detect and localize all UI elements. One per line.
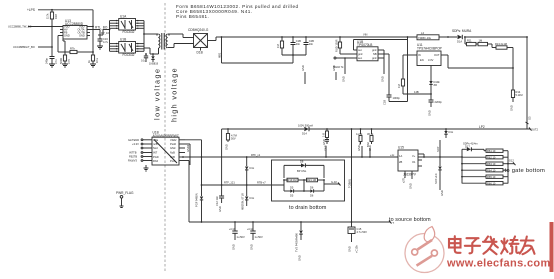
svg-text:C7x: C7x: [54, 59, 58, 64]
svg-text:gnd: gnd: [372, 48, 377, 52]
svg-text:VIN: VIN: [363, 33, 367, 37]
resistor R62 10: [462, 155, 508, 159]
svg-text:D1A: D1A: [457, 40, 462, 44]
svg-text:10n: 10n: [296, 42, 301, 46]
svg-text:1u 50V: 1u 50V: [255, 235, 263, 239]
wire right bus of FET packages to transformer: [143, 21, 158, 54]
isolator left pin stubs and nets: [128, 138, 152, 163]
svg-text:UCC28880_TW_BO: UCC28880_TW_BO: [8, 24, 32, 28]
svg-text:100V 500mA: 100V 500mA: [298, 124, 313, 128]
svg-text:low voltage: low voltage: [153, 68, 162, 120]
resistor R22 chain: [322, 128, 329, 151]
bridge rectifier D1B CDBHQ240-G: [188, 28, 216, 54]
svg-text:U1B: U1B: [120, 38, 126, 42]
svg-text:ZR: ZR: [434, 83, 438, 87]
IC U11 TPS7A4C0BPOP: [413, 43, 445, 66]
svg-text:240p: 240p: [45, 58, 49, 64]
svg-text:sen: sen: [358, 57, 363, 60]
transformer note text block: [176, 4, 299, 19]
svg-text:D5: D5: [290, 185, 294, 189]
IC U1B ADUM420BBRWZ isolator: [152, 131, 179, 165]
resistor R20A 4.22k: [356, 128, 363, 151]
wire RTF long net: [185, 153, 398, 157]
wire bridge output to HV rail: [216, 36, 222, 40]
resistor R1M vertical: [397, 79, 431, 94]
svg-text:PWR_FLAG: PWR_FLAG: [116, 191, 134, 195]
svg-text:1N5819: 1N5819: [149, 62, 159, 66]
svg-text:R62 10: R62 10: [487, 155, 496, 159]
svg-text:D1x: D1x: [250, 196, 255, 200]
svg-text:D8: D8: [300, 160, 304, 164]
svg-text:x2TL: x2TL: [401, 177, 405, 183]
svg-text:BP UNL: BP UNL: [297, 169, 307, 173]
IC U13 UCC28880D: [60, 19, 90, 39]
svg-text:NB: NB: [373, 52, 377, 56]
svg-text:+C13h: +C13h: [355, 245, 359, 253]
wire left bus of FET packages: [98, 21, 110, 52]
svg-text:R21 1M: R21 1M: [307, 178, 316, 182]
svg-text:FDC632: FDC632: [123, 53, 135, 57]
resistor R18 117k: [46, 10, 59, 27]
svg-text:R13 2L1M: R13 2L1M: [495, 42, 507, 46]
svg-text:RTF_x1: RTF_x1: [251, 153, 261, 157]
svg-text:MBZ09L-5TLR: MBZ09L-5TLR: [241, 193, 245, 210]
svg-text:GND: GND: [231, 244, 235, 250]
svg-text:GND: GND: [409, 183, 413, 189]
svg-text:GND: GND: [357, 145, 361, 151]
label to source bottom: [389, 217, 431, 223]
wire LP2 to TGB vertical: [348, 128, 353, 222]
resistor R63 10: [461, 162, 508, 166]
wire transformer secondary to bridge: [168, 34, 194, 48]
svg-text:D1x: D1x: [250, 166, 255, 170]
net G12 to gate bottom: [505, 159, 546, 174]
svg-text:V+: V+: [412, 154, 416, 158]
wire U11 input from rail: [403, 55, 413, 79]
svg-text:GND2: GND2: [186, 144, 190, 152]
capacitor C1B 10n 1kV: [291, 36, 302, 56]
svg-text:500R: 500R: [59, 58, 63, 64]
svg-text:CDBHQ240-G: CDBHQ240-G: [188, 28, 209, 32]
svg-text:GND: GND: [509, 105, 513, 111]
svg-text:GNd: GNd: [170, 146, 176, 150]
watermark url: [446, 258, 551, 270]
watermark logo circle: [405, 227, 444, 273]
resistor R66 10: [462, 181, 508, 185]
capacitor C14 1u 50V: [247, 221, 263, 250]
svg-text:RXd: RXd: [153, 159, 159, 163]
svg-text:14B: 14B: [414, 90, 419, 94]
resistor R7a 1k: [87, 55, 99, 64]
ground below C7x: [49, 64, 55, 67]
svg-text:out: out: [358, 48, 362, 52]
net stubs above wire x305 x336 x350 x382: [301, 65, 336, 84]
wire U13 pin1 to +LPS rail: [90, 10, 94, 55]
wire branch x201: [185, 140, 202, 196]
svg-text:D6: D6: [310, 185, 314, 189]
net +LPS: [27, 8, 93, 12]
svg-text:GND: GND: [79, 34, 85, 38]
capacitor C4 on LP2: [224, 128, 236, 150]
resistor R12: [476, 39, 492, 46]
svg-text:G-02: G-02: [331, 180, 337, 184]
transistor pair U1A FDC632: [110, 15, 145, 34]
capacitor C1B 1000p: [382, 36, 408, 105]
svg-text:2200p: 2200p: [435, 100, 443, 104]
svg-text:1M: 1M: [276, 44, 280, 48]
svg-text:GND: GND: [380, 76, 384, 82]
resistor R64 10: [461, 168, 508, 172]
svg-text:U1A: U1A: [120, 15, 127, 19]
resistor R11: [465, 37, 476, 46]
transistor pair U1B FDC632: [110, 38, 145, 57]
svg-text:GND: GND: [332, 65, 336, 71]
svg-text:DP_10: DP_10: [101, 31, 109, 35]
net stubs above RTF wire: [322, 139, 371, 158]
svg-text:NcB: NcB: [170, 151, 175, 155]
svg-text:1A: 1A: [399, 154, 402, 158]
svg-text:VDd2: VDd2: [170, 138, 177, 142]
svg-text:Pxd: Pxd: [170, 159, 175, 163]
diode D8 DNP: [284, 160, 324, 178]
svg-text:+C13: +C13: [229, 227, 236, 231]
diode D6: [283, 179, 325, 197]
resistor R7b feedback: [58, 36, 94, 54]
resistor R21 1M: [303, 178, 324, 182]
svg-text:gnd: gnd: [372, 56, 377, 60]
svg-text:O1: O1: [412, 160, 416, 164]
svg-text:Psd2: Psd2: [170, 142, 176, 146]
snubber box outline: [272, 160, 345, 201]
svg-text:GND: GND: [218, 206, 222, 212]
svg-text:GND: GND: [224, 144, 228, 150]
diode D5: [284, 180, 305, 197]
ground below C16: [97, 46, 103, 49]
svg-text:R19 1M: R19 1M: [288, 178, 297, 182]
svg-text:GinTEND: GinTEND: [128, 138, 139, 142]
watermark title chinese: [449, 236, 535, 254]
svg-text:G3: G3: [528, 116, 532, 120]
svg-text:TGB(K): TGB(K): [348, 179, 352, 188]
svg-text:1-B: 1-B: [322, 133, 326, 137]
svg-text:FDC632: FDC632: [123, 30, 135, 34]
svg-text:C12 1nF: C12 1nF: [215, 196, 219, 206]
resistor R19 1M: [284, 178, 304, 182]
svg-text:RXdIV3: RXdIV3: [128, 159, 137, 163]
char zi: [465, 238, 480, 253]
diode D3 MBZ09L: [241, 156, 255, 210]
svg-text:4.7u: 4.7u: [103, 40, 109, 44]
svg-text:1u 50V: 1u 50V: [237, 235, 245, 239]
svg-text:R11: R11: [467, 39, 472, 43]
svg-text:GND: GND: [301, 65, 305, 71]
svg-text:C75: C75: [67, 59, 71, 64]
wire gate ladder buses: [461, 149, 508, 183]
resistor R13 2L1M: [492, 42, 514, 69]
svg-text:PGF 9465N: PGF 9465N: [194, 193, 198, 207]
rail LP2: [222, 125, 539, 132]
svg-text:+1x: +1x: [390, 153, 395, 157]
inductor L4 744BC-10u: [417, 31, 439, 40]
wire rail right column: [526, 36, 532, 129]
svg-text:GND: GND: [341, 76, 345, 82]
resistor R14 5.11M: [509, 68, 522, 111]
svg-text:GND: GND: [427, 110, 431, 116]
svg-text:to gate bottom: to gate bottom: [505, 168, 546, 174]
svg-text:to drain bottom: to drain bottom: [289, 205, 327, 211]
resistor 500R with capacitor C75: [59, 39, 71, 64]
svg-text:R63 10: R63 10: [487, 162, 496, 166]
capacitor C13 1u 50V: [229, 221, 245, 250]
svg-text:IN: IN: [418, 53, 421, 57]
svg-text:GND: GND: [348, 246, 352, 252]
svg-text:D5: D5: [290, 193, 294, 197]
svg-text:to source bottom: to source bottom: [389, 217, 431, 223]
diode D7 vertical: [194, 193, 203, 223]
svg-text:D1x: D1x: [449, 130, 454, 134]
svg-text:Nxd: Nxd: [153, 146, 158, 150]
svg-text:4.7u 50V: 4.7u 50V: [357, 230, 368, 234]
svg-text:UCC28880L/T_BO: UCC28880L/T_BO: [13, 45, 35, 49]
isolation divider line: [164, 3, 166, 272]
capacitor C7x 240p: [45, 55, 59, 64]
svg-text:R7b: R7b: [70, 47, 75, 51]
svg-text:RTB-x7: RTB-x7: [257, 181, 266, 185]
svg-text:GND: GND: [323, 145, 327, 151]
label to drain bottom: [289, 205, 327, 211]
wire isolator bottom to source rail: [185, 161, 189, 223]
svg-text:R61 10: R61 10: [487, 149, 496, 153]
svg-text:BA0: BA0: [366, 142, 370, 147]
svg-text:RUD 120R: RUD 120R: [334, 39, 338, 52]
svg-text:GND: GND: [249, 244, 253, 250]
svg-text:GND: GND: [64, 34, 70, 38]
svg-text:NcB: NcB: [170, 155, 175, 159]
power flag PWR_FLAG: [116, 191, 134, 208]
svg-text:OUT2: OUT2: [531, 128, 538, 132]
svg-text:C1B: C1B: [383, 100, 387, 105]
wire TPS top loop: [354, 40, 408, 51]
net RTL_BO: [90, 25, 108, 39]
wire isolator VDD2 to GND2: [185, 144, 190, 165]
svg-text:MB1: MB1: [218, 52, 222, 58]
net UCC28880_TW_BO: [8, 24, 63, 28]
ground below 500R: [62, 64, 68, 67]
svg-text:R64 10: R64 10: [487, 168, 496, 172]
svg-text:R66 10: R66 10: [487, 181, 496, 185]
svg-text:RTF_121: RTF_121: [224, 181, 235, 185]
transformer T1: [156, 33, 169, 54]
wire snubber in/out stubs: [265, 180, 341, 185]
ground TPS right: [380, 50, 384, 82]
capacitor C17 0.1u: [141, 53, 148, 62]
svg-text:SCP+0.4: SCP+0.4: [434, 173, 438, 184]
capacitor C16 4.7u: [98, 37, 109, 46]
capacitor C15 4.7u 50V: [348, 221, 367, 253]
svg-text:1000p: 1000p: [393, 96, 401, 100]
char you: [520, 237, 535, 255]
svg-text:1M: 1M: [479, 39, 483, 43]
wire U15 output: [418, 154, 462, 158]
resistor RUD 120R: [334, 36, 353, 54]
svg-text:+3.3V: +3.3V: [132, 142, 139, 146]
capacitor C2B 10n 1kV: [304, 36, 315, 55]
diode D4 MBZ09L: [245, 185, 255, 206]
svg-text:EN: EN: [420, 58, 424, 62]
resistor R61 10: [484, 149, 508, 153]
svg-text:LP2: LP2: [479, 125, 485, 129]
net UCC28880L/T_BO: [13, 27, 53, 56]
svg-text:VDa: VDa: [153, 138, 159, 142]
diode 1N5819: [149, 53, 159, 65]
svg-text:50V: 50V: [231, 137, 236, 141]
svg-text:TVS P4SMA480: TVS P4SMA480: [295, 233, 299, 252]
IC U1B TPS070LB: [354, 40, 383, 61]
svg-text:ncB: ncB: [153, 142, 158, 146]
svg-text:D14: D14: [302, 131, 307, 135]
source rail bottom: [189, 221, 395, 225]
svg-text:10n: 10n: [309, 42, 314, 46]
resistor R1B 1Meg: [276, 36, 306, 55]
capacitor C12 1nF: [215, 129, 224, 212]
svg-text:GND: GND: [322, 139, 326, 145]
svg-text:OUT: OUT: [434, 53, 440, 57]
wire SCP vertical: [436, 140, 441, 166]
wire mid horizontal RTF_121: [201, 181, 272, 186]
TVS diode P4SMA: [295, 221, 303, 261]
svg-text:INTTB: INTTB: [129, 151, 137, 155]
svg-text:R65 10: R65 10: [487, 175, 496, 179]
diode D1A on rail: [447, 29, 472, 44]
svg-text:Pins B65481.: Pins B65481.: [176, 14, 209, 19]
svg-text:R7a: R7a: [95, 58, 99, 63]
diode D14 on LP2 rail: [298, 124, 313, 136]
svg-text:R18: R18: [54, 14, 58, 19]
char fa: [483, 237, 498, 255]
ground below R7a: [90, 64, 96, 67]
label high voltage: [170, 67, 179, 122]
svg-text:FB2TB: FB2TB: [129, 155, 137, 159]
svg-text:5.11M: 5.11M: [516, 93, 523, 97]
svg-text:high voltage: high voltage: [170, 67, 179, 122]
svg-text:SDPs: MURA: SDPs: MURA: [452, 29, 472, 33]
svg-text:-G12: -G12: [508, 159, 514, 163]
svg-text:PGD: PGD: [153, 155, 159, 159]
svg-text:117k: 117k: [46, 13, 50, 19]
diode D16 SCP: [434, 167, 444, 197]
svg-text:1M: 1M: [397, 84, 401, 88]
svg-text:2B: 2B: [399, 160, 402, 164]
isolator right pin stubs: [179, 140, 185, 161]
wire bridge return MB1: [218, 37, 293, 63]
HV rail top: [222, 33, 528, 37]
svg-text:744BC-10u: 744BC-10u: [418, 36, 432, 40]
char shao: [501, 237, 519, 254]
svg-text:INT: INT: [153, 151, 158, 155]
wire rail to U11 via L4: [445, 55, 513, 68]
svg-text:3.3V: 3.3V: [428, 58, 434, 62]
svg-text:+LPS: +LPS: [27, 8, 35, 12]
svg-text:gnd: gnd: [358, 52, 363, 56]
label low voltage: [153, 68, 162, 120]
svg-text:+C14: +C14: [247, 227, 254, 231]
resistor R65 10: [461, 175, 508, 179]
resistor R20B 30.1k: [367, 128, 374, 151]
IC U15: [390, 146, 422, 189]
char dian: [449, 236, 461, 253]
svg-text:GND: GND: [297, 255, 301, 261]
svg-text:GND: GND: [440, 190, 444, 196]
svg-text:D1B: D1B: [197, 51, 203, 55]
capacitor C7N 2200p: [427, 94, 442, 116]
ground TPS left: [341, 57, 345, 82]
svg-text:D6: D6: [310, 193, 314, 197]
svg-text:SCP: SCP: [436, 146, 440, 152]
svg-text:www.elecfans.com: www.elecfans.com: [446, 258, 551, 270]
zener D10k: [429, 66, 440, 95]
svg-text:U15: U15: [398, 146, 404, 150]
svg-text:TPS7A4C0BPOP: TPS7A4C0BPOP: [417, 46, 442, 50]
watermark right bar: [550, 222, 554, 272]
ground isolator: [144, 165, 149, 171]
svg-text:RTL_BO: RTL_BO: [95, 25, 108, 29]
diode D1x below LP2: [444, 128, 454, 138]
net RAD2 7k stub: [333, 57, 354, 69]
diode D17: [462, 141, 484, 151]
